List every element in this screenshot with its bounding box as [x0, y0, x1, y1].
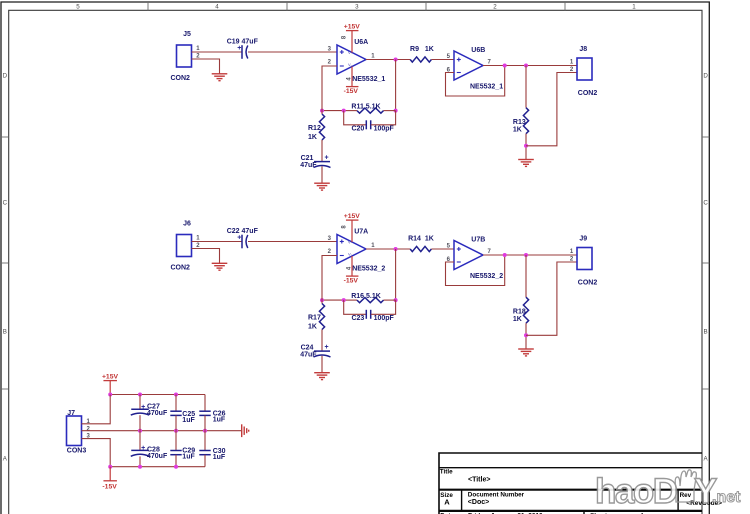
wire J7.2 ground rail: [82, 430, 242, 432]
capacitor C26 1uF: [204, 395, 206, 412]
connector J9 (CON2): [577, 248, 592, 270]
junction: [138, 429, 142, 433]
ground under R13: [518, 159, 534, 161]
junction: [524, 333, 528, 337]
wire J7.1 to +15V rail: [82, 395, 111, 424]
svg-text:J5: J5: [183, 31, 191, 38]
svg-text:1K: 1K: [425, 236, 434, 243]
svg-text:R13: R13: [513, 119, 526, 126]
ground right of rail: [241, 424, 243, 437]
svg-text:Document Number: Document Number: [468, 492, 525, 499]
capacitor C24 47uF: [314, 350, 330, 352]
capacitor C25 1uF: [175, 395, 177, 412]
wire C24 to ground: [321, 356, 323, 373]
wire +15V rail: [110, 394, 205, 396]
svg-text:CON3: CON3: [67, 447, 87, 454]
svg-text:V+: V+: [348, 50, 354, 55]
wire feedback row: [344, 299, 357, 301]
power symbol -15V: [109, 467, 111, 481]
svg-text:CON2: CON2: [171, 265, 191, 272]
title block frame: [439, 453, 702, 514]
connector J6 (CON2): [177, 235, 192, 257]
capacitor C29 1uF: [175, 431, 177, 451]
wire R18 to ground: [525, 323, 527, 349]
svg-text:100pF: 100pF: [374, 315, 395, 322]
svg-text:R14: R14: [408, 236, 421, 243]
wire R9 to U6B pin 5: [431, 59, 454, 61]
svg-text:CON2: CON2: [578, 279, 598, 286]
junction: [342, 109, 346, 113]
resistor R14 1K: [410, 246, 431, 251]
resistor R16 5.1K: [357, 298, 384, 303]
svg-text:U6A: U6A: [354, 39, 368, 46]
svg-text:2: 2: [493, 4, 497, 11]
capacitor C27 470uF: [139, 395, 141, 410]
svg-text:<Doc>: <Doc>: [468, 499, 489, 506]
svg-text:+15V: +15V: [344, 24, 361, 31]
resistor R13 1K: [525, 66, 527, 108]
junction: [108, 465, 112, 469]
wire to J8 pin 2: [526, 73, 577, 146]
junction: [503, 64, 507, 68]
svg-text:100pF: 100pF: [374, 125, 395, 132]
wire U7B output to J9: [483, 254, 577, 256]
svg-text:U6B: U6B: [471, 47, 485, 54]
wire R13 to ground: [525, 134, 527, 160]
svg-text:5: 5: [76, 4, 80, 11]
svg-text:J8: J8: [579, 46, 587, 53]
wire feedback row: [344, 110, 357, 112]
capacitor C23 100pF: [344, 300, 367, 314]
power symbol +15V: [109, 381, 111, 395]
svg-text:U7A: U7A: [354, 228, 368, 235]
svg-text:.net: .net: [712, 489, 741, 506]
svg-text:J9: J9: [579, 236, 587, 243]
svg-text:+15V: +15V: [102, 374, 119, 381]
junction: [342, 298, 346, 302]
op-amp U6B (NE5532_1): [454, 51, 483, 80]
junction: [138, 465, 142, 469]
junction: [524, 253, 528, 257]
ground at J6: [212, 262, 228, 264]
top zone ticks: [147, 2, 149, 10]
svg-text:+: +: [141, 404, 145, 411]
svg-text:+: +: [237, 45, 241, 52]
svg-text:V-: V-: [348, 62, 352, 67]
left center arrow: [1, 261, 9, 266]
svg-text:-15V: -15V: [344, 88, 359, 95]
wire U6B feedback: [446, 66, 505, 97]
svg-text:1uF: 1uF: [182, 417, 195, 424]
wire U7B feedback: [446, 255, 505, 286]
svg-text:3: 3: [355, 4, 359, 11]
svg-text:NE5532_2: NE5532_2: [352, 266, 385, 273]
svg-text:NE5532_2: NE5532_2: [470, 273, 503, 280]
svg-text:1: 1: [632, 4, 636, 11]
svg-text:A: A: [444, 497, 450, 506]
svg-text:1K: 1K: [513, 316, 522, 323]
svg-text:NE5532_1: NE5532_1: [352, 76, 385, 83]
svg-text:1K: 1K: [425, 46, 434, 53]
wire feedback vertical: [395, 60, 397, 111]
capacitor C20 100pF: [344, 111, 367, 125]
connector J5 (CON2): [177, 45, 192, 67]
svg-text:+15V: +15V: [344, 213, 361, 220]
svg-text:-15V: -15V: [344, 277, 359, 284]
junction: [394, 58, 398, 62]
svg-text:CON2: CON2: [171, 75, 191, 82]
wire R12 to C21: [321, 140, 323, 162]
wire J6.1 to C22: [192, 241, 242, 243]
svg-text:D: D: [3, 72, 8, 79]
svg-text:-15V: -15V: [102, 483, 117, 490]
junction: [174, 429, 178, 433]
junction: [174, 465, 178, 469]
svg-text:1K: 1K: [513, 126, 522, 133]
junction: [108, 393, 112, 397]
svg-text:V+: V+: [348, 240, 354, 245]
junction: [320, 298, 324, 302]
wire R17 to C24: [321, 330, 323, 352]
svg-text:+: +: [325, 155, 329, 162]
wire feedback vertical: [395, 249, 397, 300]
svg-text:J6: J6: [183, 220, 191, 227]
U6A +15V power pin 8: [351, 31, 353, 53]
wire C22 to U7A pin 3: [248, 241, 337, 243]
wire to U7A pin 2: [322, 256, 337, 301]
svg-text:1uF: 1uF: [213, 417, 226, 424]
junction: [320, 109, 324, 113]
wire J7.3 to -15V rail: [82, 439, 111, 467]
svg-text:Title: Title: [440, 469, 453, 476]
svg-text:NE5532_1: NE5532_1: [470, 83, 503, 90]
svg-text:470uF: 470uF: [147, 410, 168, 417]
capacitor C28 470uF: [139, 431, 141, 451]
svg-text:CON2: CON2: [578, 90, 598, 97]
svg-text:C22 47uF: C22 47uF: [227, 228, 259, 235]
svg-text:R16 5.1K: R16 5.1K: [351, 293, 381, 300]
haoDIY.net watermark: [595, 470, 741, 511]
svg-text:C20: C20: [351, 125, 364, 132]
ground under C21: [314, 182, 330, 184]
svg-text:+: +: [325, 344, 329, 351]
svg-text:R11 5.1K: R11 5.1K: [351, 103, 380, 110]
resistor R9 1K: [410, 57, 431, 62]
resistor R12 1K: [321, 111, 323, 114]
wire J5.2 to ground: [192, 59, 220, 74]
U7A -15V power pin 4: [351, 256, 353, 276]
svg-text:+: +: [141, 445, 145, 452]
svg-text:C23: C23: [351, 315, 364, 322]
junction: [394, 247, 398, 251]
op-amp U7B (NE5532_2): [454, 241, 483, 270]
junction: [524, 64, 528, 68]
op-amp U7A (NE5532_2): [337, 235, 366, 264]
svg-text:R17: R17: [308, 314, 321, 321]
connector J8 (CON2): [577, 58, 592, 80]
wire to J9 pin 2: [526, 262, 577, 335]
junction: [524, 144, 528, 148]
svg-text:Rev: Rev: [680, 492, 692, 499]
svg-text:C19 47uF: C19 47uF: [227, 38, 259, 45]
svg-text:47uF: 47uF: [300, 162, 317, 169]
wire to U6A pin 2: [322, 66, 337, 111]
svg-text:47uF: 47uF: [300, 352, 317, 359]
junction: [203, 429, 207, 433]
wire U6A output: [366, 59, 410, 61]
wire J6.2 to ground: [192, 249, 220, 264]
junction: [394, 298, 398, 302]
svg-text:470uF: 470uF: [147, 453, 168, 460]
svg-text:B: B: [704, 328, 708, 335]
junction: [394, 109, 398, 113]
wire U6B output to J8: [483, 65, 577, 67]
capacitor C21 47uF: [314, 161, 330, 163]
svg-text:haoD: haoD: [595, 472, 677, 511]
wire U7A output: [366, 248, 410, 250]
junction: [138, 393, 142, 397]
svg-text:R18: R18: [513, 309, 526, 316]
svg-text:V-: V-: [348, 252, 352, 257]
capacitor C22 47uF: [241, 235, 243, 249]
wire J5.1 to C19: [192, 51, 242, 53]
ground under C24: [314, 372, 330, 374]
capacitor C19 47uF: [241, 45, 243, 59]
svg-text:C: C: [3, 199, 8, 206]
svg-text:R12: R12: [308, 125, 321, 132]
svg-text:C: C: [703, 199, 708, 206]
U7A +15V power pin 8: [351, 220, 353, 242]
resistor R11 5.1K: [357, 108, 384, 113]
side zone ticks: [1, 136, 9, 138]
connector J7 (CON3): [67, 416, 82, 446]
op-amp U6A (NE5532_1): [337, 45, 366, 74]
svg-text:1K: 1K: [308, 134, 317, 141]
wire R14 to U7B pin 5: [431, 248, 454, 250]
svg-text:B: B: [3, 328, 7, 335]
svg-text:U7B: U7B: [471, 236, 485, 243]
U6A -15V power pin 4: [351, 67, 353, 87]
svg-text:4: 4: [215, 4, 219, 11]
right center arrow: [702, 261, 710, 266]
resistor R17 1K: [321, 300, 323, 303]
svg-text:<Title>: <Title>: [468, 476, 490, 483]
resistor R18 1K: [525, 255, 527, 297]
svg-text:R9: R9: [410, 46, 419, 53]
ground under R18: [518, 348, 534, 350]
svg-text:J7: J7: [67, 410, 75, 417]
ground at J5: [212, 73, 228, 75]
svg-text:D: D: [703, 72, 708, 79]
capacitor C30 1uF: [204, 431, 206, 451]
wire C19 to U6A pin 3: [248, 51, 337, 53]
junction: [174, 393, 178, 397]
svg-text:1uF: 1uF: [182, 454, 195, 461]
wire -15V rail: [110, 466, 205, 468]
junction: [503, 253, 507, 257]
svg-text:+: +: [237, 235, 241, 242]
svg-text:1uF: 1uF: [213, 454, 226, 461]
wire C21 to ground: [321, 166, 323, 183]
svg-text:1K: 1K: [308, 324, 317, 331]
